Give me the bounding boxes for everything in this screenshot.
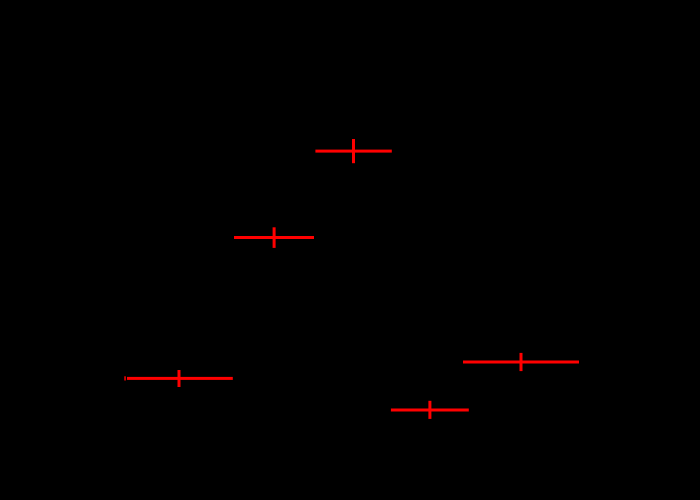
data point 3: y error bar (vertical) (178, 370, 181, 387)
data point 4: x error bar (horizontal) (463, 361, 579, 364)
data point 2: x error bar (horizontal) (234, 236, 314, 239)
data point 2: y error bar (vertical) (273, 227, 276, 248)
data point 5: x error bar (horizontal) (391, 409, 469, 412)
data point 1: x error bar (horizontal) (315, 150, 391, 153)
data point 4: y error bar (vertical) (520, 353, 523, 371)
data point 3: left end cap tick (124, 376, 126, 380)
data point 3: x error bar (horizontal) (127, 377, 233, 380)
data point 5: y error bar (vertical) (428, 401, 431, 419)
data point 1: y error bar (vertical) (352, 139, 355, 163)
